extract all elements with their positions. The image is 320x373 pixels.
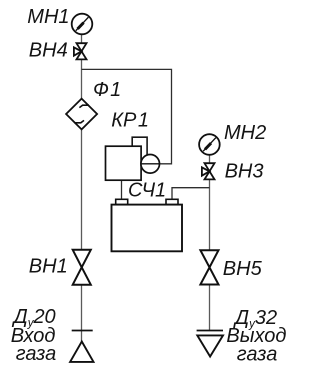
svg-text:ВН4: ВН4 <box>29 40 68 62</box>
svg-text:ВН3: ВН3 <box>225 160 264 182</box>
svg-text:СЧ1: СЧ1 <box>128 180 166 202</box>
svg-text:МН1: МН1 <box>27 6 69 28</box>
svg-text:МН2: МН2 <box>224 122 266 144</box>
svg-text:газа: газа <box>237 344 278 366</box>
svg-text:Ф1: Ф1 <box>93 79 121 101</box>
svg-text:ВН5: ВН5 <box>223 258 263 280</box>
svg-text:КР1: КР1 <box>111 109 149 131</box>
svg-text:ВН1: ВН1 <box>29 256 68 278</box>
svg-text:газа: газа <box>16 343 57 365</box>
